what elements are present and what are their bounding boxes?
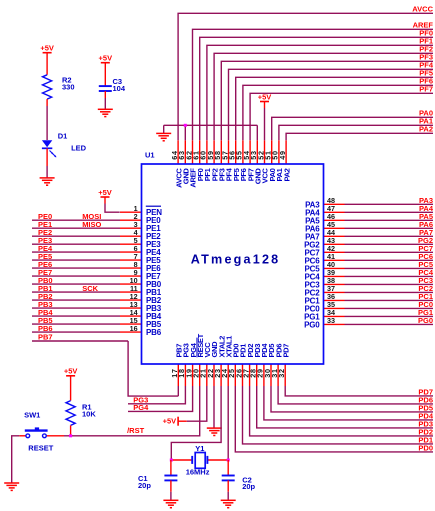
svg-text:PB6: PB6 <box>146 328 162 337</box>
svg-text:10K: 10K <box>82 410 96 419</box>
svg-text:PD0: PD0 <box>418 444 433 453</box>
svg-text:+5V: +5V <box>64 367 78 376</box>
svg-text:Y1: Y1 <box>195 444 204 453</box>
svg-text:PF7: PF7 <box>419 85 433 94</box>
svg-text:RESET: RESET <box>28 444 53 453</box>
svg-text:PB6: PB6 <box>38 324 53 333</box>
svg-text:PD1: PD1 <box>418 436 433 445</box>
svg-text:104: 104 <box>113 84 126 93</box>
svg-text:LED: LED <box>71 144 87 153</box>
svg-text:PD4: PD4 <box>418 412 433 421</box>
svg-text:+5V: +5V <box>163 416 177 425</box>
svg-text:ATmega128: ATmega128 <box>191 253 281 267</box>
svg-text:330: 330 <box>62 82 75 91</box>
svg-text:SCK: SCK <box>82 284 98 293</box>
svg-text:+5V: +5V <box>98 188 112 197</box>
svg-text:+5V: +5V <box>258 92 272 101</box>
svg-text:AVCC: AVCC <box>412 5 433 14</box>
svg-text:MISO: MISO <box>82 220 101 229</box>
svg-text:32: 32 <box>277 368 286 378</box>
svg-text:+5V: +5V <box>40 44 54 53</box>
svg-text:PD7: PD7 <box>418 388 433 397</box>
svg-text:PA2: PA2 <box>282 168 291 181</box>
svg-text:20p: 20p <box>138 481 151 490</box>
svg-text:D1: D1 <box>58 132 68 141</box>
svg-text:33: 33 <box>327 316 335 325</box>
svg-text:U1: U1 <box>145 150 155 159</box>
svg-text:PG4: PG4 <box>133 403 149 412</box>
svg-text:PD6: PD6 <box>418 396 433 405</box>
svg-text:PG0: PG0 <box>418 316 433 325</box>
svg-text:20p: 20p <box>242 482 255 491</box>
svg-text:PA2: PA2 <box>419 125 433 134</box>
svg-text:16MHz: 16MHz <box>186 467 210 476</box>
svg-text:+5V: +5V <box>99 54 113 63</box>
svg-text:PD7: PD7 <box>281 344 290 358</box>
svg-text:16: 16 <box>130 324 138 333</box>
svg-text:SW1: SW1 <box>24 410 40 419</box>
svg-text:PD5: PD5 <box>418 404 433 413</box>
svg-text:/RST: /RST <box>127 426 145 435</box>
svg-text:PG0: PG0 <box>304 320 320 329</box>
svg-text:PD3: PD3 <box>418 420 433 429</box>
svg-text:PD2: PD2 <box>418 428 433 437</box>
svg-text:PB7: PB7 <box>38 333 53 342</box>
svg-text:49: 49 <box>278 150 287 160</box>
